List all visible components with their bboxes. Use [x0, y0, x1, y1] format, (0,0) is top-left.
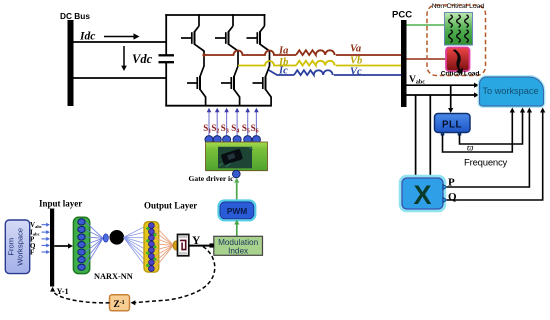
node phase A tap	[202, 53, 205, 56]
svg-text:From: From	[7, 238, 16, 256]
fan-in lines	[86, 222, 104, 238]
PLL port 1	[441, 133, 445, 136]
node gate S6	[252, 136, 260, 144]
non-critical load coils	[449, 15, 453, 28]
From Workspace block	[5, 220, 29, 274]
svg-text:Ic: Ic	[278, 66, 288, 77]
wire PLL out2 to workspace	[460, 110, 523, 144]
DC Bus bar	[68, 20, 74, 106]
Modulation Index block	[214, 236, 263, 255]
PWM block	[219, 201, 256, 221]
node gate S1	[205, 136, 213, 144]
wire DC bus top to inverter	[74, 41, 168, 43]
wire La to PCC	[336, 54, 401, 56]
svg-text:Frequency: Frequency	[464, 158, 508, 169]
product block X	[401, 177, 445, 211]
fan lines to sum node	[155, 226, 174, 246]
PLL port 2	[458, 133, 462, 136]
node gate S3	[223, 136, 231, 144]
svg-text:ϖ: ϖ	[467, 143, 474, 153]
wire input Q	[42, 244, 47, 246]
svg-text:DC Bus: DC Bus	[60, 11, 90, 21]
svg-text:Vdc: Vdc	[132, 52, 153, 66]
wire PCC to non-critical load (green)	[407, 24, 445, 26]
X output port Q	[443, 198, 447, 203]
inductor Lb	[296, 61, 335, 66]
node gate driver input	[233, 170, 241, 178]
wire drop to product X input 1	[415, 95, 417, 178]
transistor Q3 (top, leg 3)	[264, 14, 266, 26]
wire PCC to critical load (brown)	[407, 58, 447, 60]
wire Y to Modulation Index	[189, 245, 214, 247]
transistor Q6 (bottom, leg 3)	[269, 65, 271, 67]
transistor Q5 (bottom, leg 2)	[237, 65, 239, 67]
PCC bar	[401, 20, 407, 107]
output layer neurons	[149, 223, 155, 229]
wire input F	[42, 251, 47, 253]
wire gate signal S4	[236, 112, 238, 136]
transistor Q1 (top, leg 1)	[198, 14, 200, 26]
wire phase A (brown) with hops	[204, 51, 296, 56]
dashed feedback wire Y to Z-1	[133, 247, 215, 303]
sum node (orange)	[173, 241, 179, 250]
wire gate signal S2	[216, 112, 218, 136]
wire leg 1 midpoint	[203, 51, 205, 67]
Vdc direction arrow	[123, 46, 125, 66]
input layer bar	[50, 209, 54, 287]
Idc direction arrow	[104, 36, 134, 38]
capacitor C1 (DC link)	[159, 54, 175, 56]
wire phase C (blue)	[269, 70, 294, 75]
delay block Z-1	[110, 295, 130, 311]
svg-text:Y-1: Y-1	[57, 287, 69, 296]
activation block	[178, 234, 189, 255]
wire gate signal S6	[255, 112, 257, 136]
wire Lb to PCC	[336, 65, 401, 67]
wire DC bus bottom to inverter	[74, 77, 168, 79]
svg-text:F: F	[30, 249, 34, 257]
wire Q to workspace	[447, 110, 543, 200]
svg-text:Critical Load: Critical Load	[441, 71, 480, 78]
PLL block	[435, 114, 471, 133]
node gate S5	[244, 136, 252, 144]
non-critical load block	[445, 13, 473, 46]
svg-text:To workspace: To workspace	[482, 86, 538, 96]
wire drop to PLL	[450, 85, 452, 109]
svg-text:Index: Index	[228, 246, 248, 255]
wire gate signal S1	[208, 112, 210, 136]
fan-out lines	[124, 226, 148, 238]
hidden layer neurons	[78, 219, 85, 225]
svg-text:Input layer: Input layer	[39, 199, 82, 209]
wire Modulation Index to PWM (green)	[236, 225, 238, 237]
wire input Vabc	[42, 224, 47, 226]
wire leg 2 midpoint	[237, 51, 239, 67]
inductor La	[296, 50, 335, 55]
svg-text:Q: Q	[448, 191, 457, 203]
wire gate signal S5	[247, 112, 249, 136]
wire P to workspace	[447, 110, 529, 187]
dashed load group box	[427, 5, 486, 76]
svg-text:Gate driver ic: Gate driver ic	[189, 174, 235, 183]
wire input Iabc	[42, 231, 47, 233]
node small blue	[103, 234, 108, 242]
transistor Q2 (top, leg 2)	[232, 14, 234, 26]
svg-text:PCC: PCC	[392, 10, 412, 21]
wire PLL out1 to workspace	[443, 110, 513, 152]
node gate S2	[213, 136, 221, 144]
transistor Q4 (bottom, leg 1)	[203, 65, 205, 67]
wire phase B (yellow) with hop	[238, 61, 296, 66]
hidden layer box	[73, 217, 89, 273]
DC link left rail	[165, 14, 167, 55]
svg-text:Va: Va	[350, 44, 361, 55]
wire Lc to PCC	[334, 74, 401, 76]
svg-text:NARX-NN: NARX-NN	[94, 272, 133, 281]
wire PWM to gate driver (green)	[236, 183, 238, 202]
wire input bar to hidden layer	[54, 245, 69, 247]
svg-text:Idc: Idc	[79, 31, 95, 43]
dashed feedback wire Z-1 to input bar	[53, 290, 110, 303]
wire input P	[42, 238, 47, 240]
To workspace block	[480, 77, 544, 106]
junction on Y wire	[210, 243, 214, 247]
svg-text:PLL: PLL	[442, 120, 462, 131]
gate driver IC U1	[206, 142, 268, 171]
svg-text:Non-Critical Load: Non-Critical Load	[432, 3, 485, 10]
critical load block	[446, 48, 470, 72]
wire gate signal S3	[226, 112, 228, 136]
svg-text:Vb: Vb	[350, 55, 362, 66]
svg-text:Vc: Vc	[350, 66, 362, 77]
critical load arrow icon	[453, 49, 463, 74]
inductor Lc	[294, 70, 333, 75]
output layer box	[144, 222, 159, 272]
X output port P	[443, 185, 447, 190]
svg-text:X: X	[413, 180, 431, 210]
output layer sparkles	[146, 227, 149, 230]
svg-text:Output Layer: Output Layer	[144, 201, 197, 211]
wire Vabc to workspace	[407, 84, 476, 86]
wire drop to product X input 2	[429, 95, 431, 178]
node big black neuron	[110, 230, 125, 245]
inverter bottom rail	[165, 105, 271, 107]
svg-text:Ia: Ia	[278, 46, 288, 57]
svg-text:Workspace: Workspace	[16, 228, 25, 266]
wire leg 3 midpoint	[269, 51, 271, 67]
inverter top rail	[165, 14, 265, 16]
svg-text:PWM: PWM	[227, 206, 247, 216]
node gate S4	[233, 136, 241, 144]
wire Iabc to workspace	[407, 94, 476, 96]
